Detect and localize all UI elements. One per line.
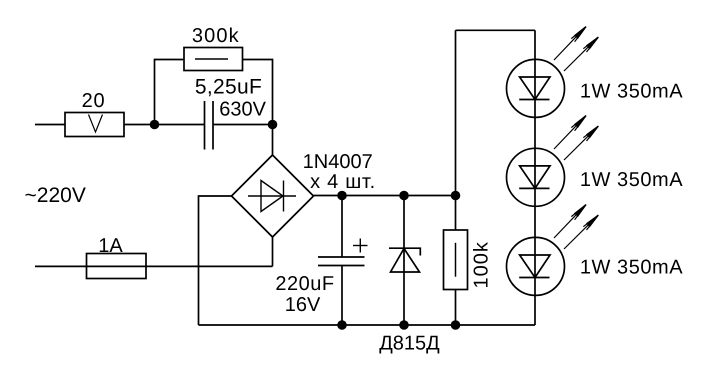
wire C2 bottom leg [341,266,343,326]
svg-text:~220V: ~220V [25,184,86,207]
svg-text:20: 20 [82,90,106,112]
svg-text:100k: 100k [471,241,493,288]
LED D3 arrows [554,205,598,249]
zener cathode bar [389,248,420,255]
wire 300k right leg [243,60,273,125]
svg-text:5,25uF: 5,25uF [195,76,262,99]
wire AC bottom through fuse [35,265,273,267]
node dot minus rail 100k [451,320,461,330]
wire bridge bottom to AC [272,237,274,266]
node dot R1-C1 junction [150,120,160,130]
wire node A to C1 [214,124,273,126]
wire LED chain [534,30,536,325]
wire AC top-left input [35,124,65,126]
node dot minus rail C2 [337,320,347,330]
svg-text:630V: 630V [219,99,266,121]
wire plus rail [314,195,456,197]
svg-text:16V: 16V [285,294,321,316]
wire bridge left to minus rail [199,196,232,325]
LED D1 triangle [520,77,550,100]
svg-text:1W 350mA: 1W 350mA [580,257,683,279]
wire 300k left leg [155,60,185,125]
resistor R1 20 [65,113,124,137]
capacitor C1 5,25uF plates [204,101,206,150]
wire R1 to node A [124,124,204,126]
node dot plus rail zener [399,191,409,201]
LED D1 arrows [554,27,598,71]
resistor R3 100k [444,230,468,290]
C2 polarity plus sign [353,245,368,247]
LED D1 circle [507,59,565,117]
wire node B to bridge top [272,125,274,156]
wire minus bottom rail [199,324,536,326]
svg-text:1A: 1A [98,235,123,257]
zener diode VD2 wire [403,196,405,326]
svg-text:1N4007: 1N4007 [303,151,373,173]
capacitor C2 220uF plates [318,256,365,258]
LED D3 circle [507,237,565,295]
wire 100k bottom [455,290,457,326]
wire C2 top leg [341,196,343,258]
LED D2 triangle [520,166,550,189]
node dot plus rail 100k [451,191,461,201]
LED D3 triangle [520,255,550,278]
svg-text:1W 350mA: 1W 350mA [580,81,683,103]
svg-text:1W 350mA: 1W 350mA [580,169,683,191]
zener triangle [391,249,420,273]
node dot minus rail zener [399,320,409,330]
node dot plus rail C2 [337,191,347,201]
bridge inner diode [248,195,296,197]
LED D2 arrows [554,116,598,160]
wire top rail to LEDs [456,29,536,31]
svg-text:х 4 шт.: х 4 шт. [310,171,376,193]
LED D2 circle [507,148,565,206]
bridge rectifier VD1 diamond [232,155,314,237]
node dot C1-bridge junction [268,120,278,130]
resistor R2 300k [184,48,243,71]
svg-text:220uF: 220uF [275,273,334,295]
wire 100k branch top [455,30,457,230]
svg-text:Д815Д: Д815Д [379,333,440,355]
fuse F1 1A [87,254,147,279]
svg-text:300k: 300k [192,25,240,47]
